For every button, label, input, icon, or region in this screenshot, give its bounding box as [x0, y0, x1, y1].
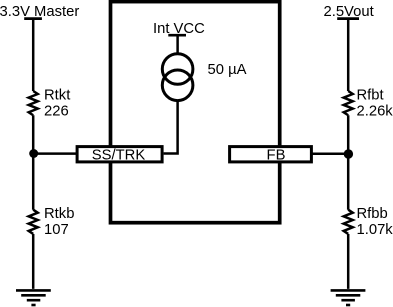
svg-text:Int VCC: Int VCC — [153, 21, 205, 37]
svg-text:1.07k: 1.07k — [357, 222, 393, 238]
svg-text:Rtkb: Rtkb — [44, 206, 74, 222]
svg-text:Rtkt: Rtkt — [44, 87, 70, 103]
svg-text:FB: FB — [267, 148, 286, 164]
svg-text:Rfbb: Rfbb — [357, 206, 388, 222]
svg-text:50 µA: 50 µA — [208, 62, 247, 78]
svg-text:SS/TRK: SS/TRK — [92, 147, 146, 163]
svg-text:226: 226 — [44, 104, 69, 120]
svg-text:107: 107 — [44, 222, 69, 238]
svg-text:3.3V Master: 3.3V Master — [0, 4, 79, 20]
svg-text:Rfbt: Rfbt — [357, 87, 384, 103]
svg-text:2.5Vout: 2.5Vout — [323, 4, 373, 20]
svg-text:2.26k: 2.26k — [357, 104, 393, 120]
